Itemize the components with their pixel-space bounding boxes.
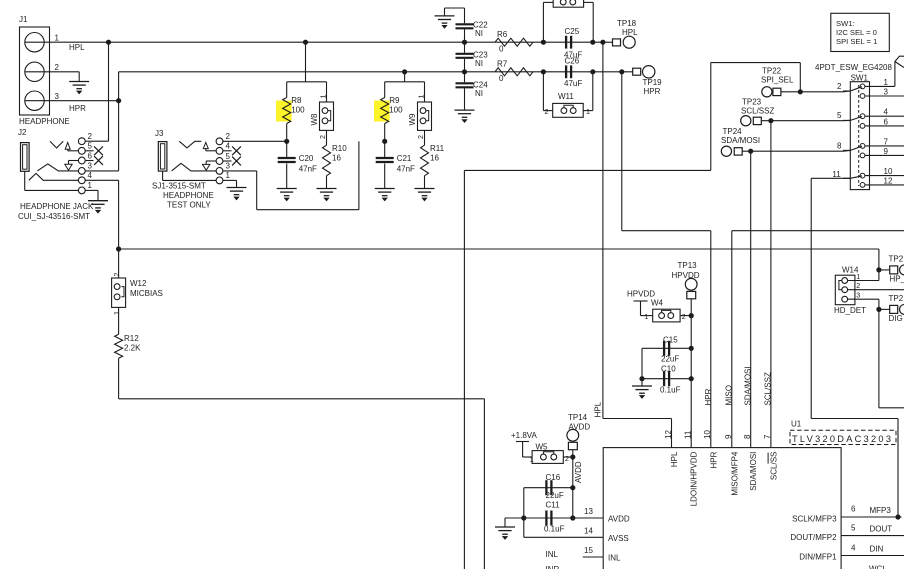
svg-text:TLV320DAC3203: TLV320DAC3203 (792, 434, 893, 444)
svg-text:2: 2 (55, 63, 60, 72)
svg-text:2: 2 (416, 135, 425, 139)
svg-text:SPI_SEL: SPI_SEL (761, 76, 794, 85)
svg-text:W8: W8 (310, 113, 319, 126)
svg-text:1: 1 (530, 455, 534, 464)
svg-text:12: 12 (884, 176, 893, 185)
svg-text:47nF: 47nF (397, 165, 415, 174)
svg-text:DOUT/MFP2: DOUT/MFP2 (790, 533, 837, 542)
svg-text:1: 1 (318, 95, 327, 99)
svg-text:R9: R9 (389, 96, 400, 105)
svg-text:C16: C16 (546, 473, 561, 482)
svg-text:3: 3 (226, 162, 231, 171)
svg-text:100: 100 (389, 106, 403, 115)
svg-text:NI: NI (475, 29, 483, 38)
svg-text:AVSS: AVSS (608, 534, 629, 543)
svg-text:2.2K: 2.2K (124, 344, 141, 353)
svg-text:SW1:: SW1: (836, 19, 855, 28)
svg-text:HPL: HPL (593, 401, 602, 417)
svg-text:1: 1 (586, 107, 590, 116)
svg-text:SCL/SSZ: SCL/SSZ (741, 106, 774, 115)
svg-text:7: 7 (884, 137, 889, 146)
svg-text:2: 2 (837, 82, 842, 91)
svg-text:1: 1 (112, 311, 121, 315)
svg-text:TP14: TP14 (568, 413, 588, 422)
svg-text:+1.8VA: +1.8VA (511, 431, 538, 440)
svg-text:W9: W9 (408, 113, 417, 126)
svg-text:4: 4 (226, 142, 231, 151)
svg-text:HPL: HPL (622, 28, 638, 37)
svg-text:TP19: TP19 (643, 78, 663, 87)
svg-text:MISO: MISO (724, 385, 733, 405)
svg-text:22uF: 22uF (546, 491, 564, 500)
svg-text:I2C SEL = 0: I2C SEL = 0 (836, 28, 877, 37)
svg-text:9: 9 (884, 147, 889, 156)
svg-text:R6: R6 (497, 30, 508, 39)
svg-text:TP24: TP24 (723, 127, 743, 136)
svg-text:SCL/SSZ: SCL/SSZ (764, 372, 773, 405)
svg-text:R10: R10 (332, 144, 347, 153)
svg-text:SDA/MOSI: SDA/MOSI (721, 136, 760, 145)
svg-text:5: 5 (88, 142, 93, 151)
svg-text:1: 1 (884, 78, 889, 87)
svg-text:HPL: HPL (69, 43, 85, 52)
svg-text:J3: J3 (155, 129, 164, 138)
svg-text:R11: R11 (430, 144, 445, 153)
svg-text:1: 1 (88, 181, 93, 190)
svg-text:MISO/MFP4: MISO/MFP4 (730, 451, 739, 496)
svg-text:SCLK/MFP3: SCLK/MFP3 (792, 515, 837, 524)
svg-text:5: 5 (851, 524, 856, 533)
svg-text:C10: C10 (661, 365, 676, 374)
svg-text:MICBIAS: MICBIAS (130, 289, 163, 298)
svg-text:HEADPHONE: HEADPHONE (163, 191, 214, 200)
svg-text:C26: C26 (565, 56, 580, 65)
svg-text:0.1uF: 0.1uF (660, 385, 681, 394)
svg-text:4: 4 (88, 171, 93, 180)
svg-text:SDA/MOSI: SDA/MOSI (749, 452, 758, 491)
svg-text:TP13: TP13 (678, 261, 698, 270)
svg-text:47uF: 47uF (564, 79, 582, 88)
svg-text:16: 16 (332, 154, 341, 163)
svg-text:2: 2 (88, 132, 93, 141)
svg-text:HD_DET: HD_DET (834, 306, 866, 315)
svg-text:W12: W12 (130, 279, 147, 288)
svg-text:R12: R12 (124, 334, 139, 343)
svg-text:HEADPHONE JACK: HEADPHONE JACK (20, 202, 94, 211)
svg-text:2: 2 (565, 454, 569, 463)
svg-text:CUI_SJ-43516-SMT: CUI_SJ-43516-SMT (18, 212, 90, 221)
svg-text:16: 16 (430, 154, 439, 163)
svg-text:10: 10 (703, 430, 712, 439)
svg-text:2: 2 (318, 135, 327, 139)
svg-text:15: 15 (584, 546, 593, 555)
svg-text:C20: C20 (299, 154, 314, 163)
svg-text:6: 6 (884, 117, 889, 126)
svg-text:DIN: DIN (870, 545, 884, 554)
svg-text:R8: R8 (291, 96, 302, 105)
svg-text:C25: C25 (565, 27, 580, 36)
svg-text:TP18: TP18 (617, 19, 637, 28)
svg-text:8: 8 (837, 142, 842, 151)
svg-text:1: 1 (55, 34, 60, 43)
svg-text:INR: INR (546, 565, 560, 569)
svg-text:3: 3 (88, 162, 93, 171)
svg-text:R7: R7 (497, 60, 508, 69)
svg-text:TP23: TP23 (742, 98, 762, 107)
svg-text:4: 4 (851, 544, 856, 553)
svg-text:HPR: HPR (69, 104, 86, 113)
svg-text:TEST ONLY: TEST ONLY (167, 201, 211, 210)
svg-text:8: 8 (743, 434, 752, 439)
svg-text:1: 1 (226, 171, 231, 180)
svg-text:HPVDD: HPVDD (627, 290, 655, 299)
svg-text:C21: C21 (397, 154, 412, 163)
svg-text:W5: W5 (536, 442, 549, 451)
svg-text:1: 1 (644, 312, 648, 321)
svg-text:3: 3 (856, 291, 860, 300)
svg-text:HEADPHONE: HEADPHONE (19, 117, 70, 126)
svg-text:W4: W4 (651, 299, 664, 308)
svg-text:3: 3 (55, 92, 60, 101)
svg-text:4: 4 (884, 108, 889, 117)
svg-text:SJ1-3515-SMT: SJ1-3515-SMT (152, 182, 206, 191)
svg-text:0: 0 (499, 74, 504, 83)
svg-text:11: 11 (832, 170, 841, 179)
svg-text:J1: J1 (19, 15, 28, 24)
svg-text:1: 1 (856, 272, 860, 281)
svg-text:AVDD: AVDD (608, 515, 630, 524)
svg-text:6: 6 (88, 151, 93, 160)
svg-text:5: 5 (226, 152, 231, 161)
svg-text:2: 2 (226, 132, 231, 141)
svg-text:13: 13 (584, 507, 593, 516)
svg-text:7: 7 (763, 434, 772, 439)
svg-text:HP_: HP_ (890, 275, 904, 284)
svg-text:2: 2 (545, 107, 549, 116)
svg-text:DIG: DIG (889, 314, 903, 323)
svg-text:0: 0 (499, 45, 504, 54)
svg-text:C15: C15 (663, 336, 678, 345)
svg-text:5: 5 (837, 111, 842, 120)
svg-text:W11: W11 (558, 92, 574, 101)
svg-text:U1: U1 (791, 420, 802, 429)
svg-text:2: 2 (112, 273, 121, 277)
svg-text:10: 10 (884, 167, 893, 176)
svg-text:DOUT: DOUT (870, 525, 893, 534)
svg-text:INL: INL (546, 550, 559, 559)
svg-text:TP2: TP2 (889, 294, 904, 303)
svg-text:22uF: 22uF (661, 355, 679, 364)
svg-text:4PDT_ESW_EG4208: 4PDT_ESW_EG4208 (815, 63, 892, 72)
svg-text:6: 6 (851, 505, 856, 514)
svg-text:14: 14 (584, 527, 593, 536)
svg-text:DIN/MFP1: DIN/MFP1 (799, 553, 837, 562)
svg-text:AVDD: AVDD (569, 423, 591, 432)
svg-text:HPR: HPR (704, 388, 713, 405)
svg-text:AVDD: AVDD (574, 461, 583, 483)
svg-text:INL: INL (608, 554, 621, 563)
svg-text:TP22: TP22 (762, 67, 782, 76)
svg-text:HPL: HPL (670, 451, 679, 467)
svg-text:MFP3: MFP3 (870, 506, 892, 515)
svg-text:LDOIN/HPVDD: LDOIN/HPVDD (690, 451, 699, 506)
svg-text:9: 9 (724, 434, 733, 439)
svg-text:HPR: HPR (644, 87, 661, 96)
svg-text:1: 1 (416, 95, 425, 99)
svg-text:SPI SEL = 1: SPI SEL = 1 (836, 37, 877, 46)
svg-text:SCL/SS: SCL/SS (769, 452, 778, 480)
svg-text:HPVDD: HPVDD (672, 271, 700, 280)
svg-text:11: 11 (684, 430, 693, 439)
svg-text:NI: NI (475, 89, 483, 98)
svg-text:100: 100 (291, 106, 305, 115)
svg-text:SDA/MOSI: SDA/MOSI (743, 366, 752, 405)
svg-text:NI: NI (475, 59, 483, 68)
svg-text:47nF: 47nF (299, 165, 317, 174)
svg-text:HPR: HPR (709, 451, 718, 468)
svg-text:J2: J2 (18, 128, 27, 137)
svg-text:2: 2 (682, 312, 686, 321)
svg-text:TP2: TP2 (889, 255, 904, 264)
svg-text:3: 3 (884, 87, 889, 96)
svg-text:0.1uF: 0.1uF (544, 524, 565, 533)
svg-text:SW1: SW1 (851, 73, 869, 82)
svg-text:C11: C11 (546, 501, 561, 510)
svg-text:2: 2 (856, 281, 860, 290)
svg-text:WCL: WCL (869, 565, 887, 569)
